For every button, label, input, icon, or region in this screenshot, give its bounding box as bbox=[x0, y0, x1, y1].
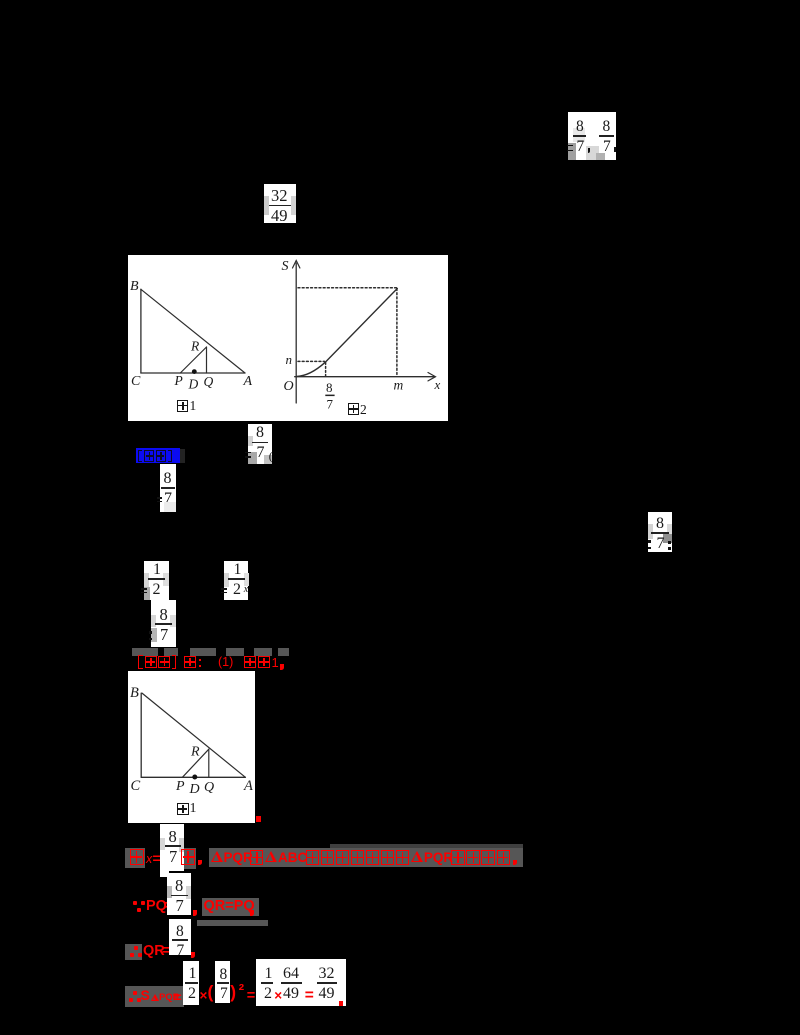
red △ bbox=[211, 851, 223, 862]
caption 图 (fig2) bbox=[348, 403, 360, 415]
red 最 bbox=[481, 850, 494, 865]
white eq box 8/7 mid bbox=[151, 600, 175, 648]
red comma bbox=[280, 664, 284, 670]
red ( bbox=[208, 984, 214, 1002]
gray artifact bbox=[596, 153, 605, 160]
8/7 mid bar bbox=[155, 623, 172, 625]
white eq box 8/7 right bbox=[648, 512, 672, 553]
caption 1 bbox=[190, 399, 197, 413]
svg-text:C: C bbox=[130, 778, 140, 794]
8/7 line3 denominator bbox=[176, 898, 184, 915]
8/7 line4 numerator bbox=[176, 924, 184, 940]
svg-text:R: R bbox=[190, 339, 200, 354]
caption 图 (fig big) bbox=[177, 803, 189, 816]
8/7 first denominator bbox=[577, 139, 585, 155]
gray jpeg block bbox=[132, 648, 158, 656]
8/7 second denominator bbox=[603, 139, 611, 155]
triangle BA hypotenuse bbox=[141, 289, 245, 373]
8/7 line5 numerator bbox=[220, 967, 228, 983]
8/7 line4 bar bbox=[172, 939, 188, 941]
red 恰 bbox=[366, 850, 379, 865]
gray jpeg block bbox=[184, 848, 197, 869]
black equals fragment bbox=[245, 456, 251, 458]
svg-text:8: 8 bbox=[326, 380, 333, 395]
red (1) bbox=[218, 656, 233, 669]
8/7 bar bbox=[325, 395, 334, 397]
black dot fragment bbox=[648, 540, 651, 543]
gray jpeg block bbox=[125, 986, 184, 1007]
gray jpeg block bbox=[164, 648, 178, 656]
white eq box 1/2 line5 bbox=[183, 961, 199, 1005]
svg-text:7: 7 bbox=[327, 397, 334, 412]
8/7 right denominator bbox=[657, 536, 665, 552]
white eq box 1/2 b bbox=[224, 561, 248, 600]
svg-text:A: A bbox=[243, 778, 253, 794]
red 【 bbox=[138, 655, 143, 669]
top dotted line bbox=[298, 287, 398, 289]
white eq box result bbox=[256, 959, 346, 1007]
fraction 8/7 under figure bbox=[0, 0, 1, 1]
1/2 result denominator bbox=[264, 986, 272, 1002]
red comma bbox=[193, 910, 197, 916]
black 】 bbox=[168, 450, 172, 463]
red 与 bbox=[250, 850, 263, 865]
fraction 8/7 second bbox=[0, 0, 1, 1]
32/49 bar bbox=[269, 205, 291, 207]
64/49 result bar bbox=[281, 982, 302, 984]
white eq box 8/7 under fig bbox=[248, 424, 272, 464]
gray artifact bbox=[164, 502, 176, 512]
32/49 result denominator bbox=[319, 986, 335, 1002]
gray jpeg block bbox=[197, 920, 269, 926]
gray artifact bbox=[667, 524, 673, 534]
gray jpeg block bbox=[202, 898, 259, 916]
red QR=PQ bbox=[204, 899, 255, 914]
red sub △ bbox=[151, 994, 159, 1001]
fraction 1/2 first bbox=[0, 0, 1, 1]
black comma bbox=[588, 148, 591, 153]
red period bbox=[256, 816, 261, 822]
8/7 line2 denominator bbox=[169, 849, 177, 866]
red 面 bbox=[451, 850, 464, 865]
black dot fragment bbox=[668, 547, 671, 550]
8/7 under figure bar bbox=[252, 442, 268, 444]
gray artifact bbox=[663, 534, 672, 543]
8/7 line3 numerator bbox=[175, 878, 183, 895]
32/49 denominator bbox=[271, 208, 288, 225]
black x fragment bbox=[244, 585, 248, 595]
red 】 bbox=[172, 655, 177, 669]
svg-text:P: P bbox=[175, 779, 185, 794]
red 分 bbox=[351, 850, 364, 865]
32/49 numerator bbox=[271, 188, 288, 205]
red = in box bbox=[305, 988, 314, 1004]
black equals fragment bbox=[245, 452, 251, 454]
dark halo bbox=[180, 449, 185, 464]
black dot fragment bbox=[149, 638, 152, 641]
black equals fragment bbox=[141, 588, 147, 590]
S curve bbox=[297, 289, 398, 377]
black equals fragment bbox=[157, 497, 162, 499]
black equals fragment top bbox=[567, 145, 573, 147]
black equals fragment bbox=[141, 592, 147, 594]
triangle CA base bbox=[141, 776, 245, 778]
svg-text:m: m bbox=[394, 378, 404, 393]
8/7 dotted line bbox=[325, 363, 327, 377]
fraction 8/7 line4 bbox=[0, 0, 1, 1]
red colon dot bbox=[199, 659, 202, 662]
red 大 bbox=[497, 850, 510, 865]
red therefore ∴ bbox=[133, 991, 137, 995]
gray artifact bbox=[151, 615, 156, 627]
red PQR bbox=[424, 851, 453, 865]
fraction 64/49 result bbox=[0, 0, 1, 1]
inner PR side bbox=[182, 749, 208, 777]
svg-text:n: n bbox=[286, 352, 293, 367]
black equals fragment bbox=[221, 592, 227, 594]
svg-text:A: A bbox=[243, 374, 253, 389]
8/7 line3 bar bbox=[171, 895, 188, 897]
1/2 first denominator bbox=[153, 582, 161, 598]
fraction 1/2 line5 bbox=[0, 0, 1, 1]
white eq box 32/49 bbox=[264, 184, 296, 223]
1/2 result numerator bbox=[265, 966, 273, 982]
gray artifact bbox=[573, 128, 585, 142]
figure box: triangle diagram 图1 and graph 图2 bbox=[128, 255, 448, 421]
1/2 first numerator bbox=[153, 562, 161, 578]
black dot fragment bbox=[149, 631, 152, 634]
gray artifact bbox=[586, 146, 599, 160]
S axis bbox=[295, 263, 297, 403]
figure box 2: large triangle diagram 图1 bbox=[128, 671, 255, 823]
white eq box 8/7 below blue bbox=[160, 464, 176, 512]
triangle CB side bbox=[140, 693, 142, 777]
1/2 second numerator bbox=[234, 562, 242, 578]
gray jpeg block bbox=[278, 648, 289, 656]
red 好 bbox=[381, 850, 394, 865]
red PQ bbox=[146, 899, 167, 914]
white sliver bbox=[160, 871, 168, 877]
fraction 32/49 bbox=[0, 0, 1, 1]
gray jpeg block bbox=[209, 848, 523, 867]
fraction 8/7 line3 bbox=[0, 0, 1, 1]
8/7 line4 denominator bbox=[177, 943, 185, 959]
8/7 second bar bbox=[599, 135, 614, 137]
gray artifact bbox=[264, 196, 269, 215]
1/2 line5 denominator bbox=[188, 986, 196, 1002]
x axis bbox=[295, 376, 434, 378]
caption 1 bbox=[190, 802, 197, 816]
red △ bbox=[265, 851, 277, 862]
black 答 bbox=[156, 450, 166, 462]
red = bbox=[165, 899, 173, 914]
red period bbox=[339, 1001, 344, 1006]
1/2 second bar bbox=[228, 578, 245, 580]
black 【 bbox=[138, 450, 142, 463]
1/2 result bar bbox=[261, 982, 272, 984]
blue highlight bbox=[136, 448, 181, 463]
gray artifact bbox=[179, 838, 184, 852]
32/49 result numerator bbox=[319, 966, 335, 982]
caption 图 (fig1) bbox=[177, 400, 189, 412]
gray artifact bbox=[248, 452, 257, 464]
white eq box 8/7 line4 bbox=[169, 919, 192, 955]
fraction 8/7 mid bbox=[0, 0, 1, 1]
red sub PQR bbox=[159, 993, 180, 1003]
fraction 32/49 result bbox=[0, 0, 1, 1]
8/7 mid denominator bbox=[160, 627, 168, 644]
gray artifact bbox=[568, 143, 576, 160]
8/7 line5 bar bbox=[217, 982, 230, 984]
point D dot bbox=[192, 369, 197, 374]
64/49 result numerator bbox=[283, 966, 299, 982]
8/7 right bar bbox=[651, 532, 669, 534]
red 如 bbox=[244, 656, 257, 669]
triangle CB side bbox=[140, 289, 142, 373]
1/2 second denominator bbox=[233, 582, 241, 598]
fraction 1/2 second bbox=[0, 0, 1, 1]
gray artifact bbox=[167, 886, 172, 898]
8/7 first numerator bbox=[576, 119, 584, 135]
red colon dot bbox=[199, 665, 202, 668]
point D dot bbox=[192, 775, 197, 780]
red therefore ∴ bbox=[134, 946, 138, 950]
svg-text:B: B bbox=[130, 279, 139, 294]
red = bbox=[247, 989, 255, 1004]
svg-text:P: P bbox=[174, 373, 183, 388]
1/2 line5 numerator bbox=[189, 966, 197, 982]
8/7 second numerator bbox=[603, 119, 611, 135]
svg-text:S: S bbox=[282, 259, 289, 274]
red comma bbox=[198, 860, 202, 866]
fraction 8/7 below blue bbox=[0, 0, 1, 1]
fraction 8/7 first bbox=[0, 0, 1, 1]
black equals fragment bbox=[157, 501, 162, 503]
red 时 bbox=[181, 849, 195, 865]
red 解 bbox=[184, 656, 197, 669]
red = bbox=[162, 944, 170, 959]
8/7 below blue denominator bbox=[164, 491, 172, 507]
red ² bbox=[239, 983, 245, 1000]
8/7 below blue bar bbox=[161, 487, 175, 489]
white eq box 8/7 line3 bbox=[167, 873, 191, 915]
x axis arrow bbox=[428, 373, 436, 381]
black equals fragment bottom bbox=[567, 150, 573, 152]
svg-text:x: x bbox=[434, 377, 441, 392]
red 重 bbox=[306, 850, 319, 865]
fraction 8/7 line2 bbox=[0, 0, 1, 1]
svg-text:D: D bbox=[188, 377, 199, 392]
gray jpeg block bbox=[125, 848, 145, 868]
gray artifact bbox=[144, 587, 150, 600]
red 叠 bbox=[321, 850, 334, 865]
red comma bbox=[191, 952, 195, 958]
red × in box bbox=[274, 989, 282, 1003]
svg-text:Q: Q bbox=[204, 780, 214, 795]
gray artifact bbox=[170, 615, 176, 627]
8/7 right numerator bbox=[656, 516, 664, 532]
svg-text:O: O bbox=[284, 379, 294, 394]
triangle BA hypotenuse bbox=[142, 693, 245, 777]
1/2 line5 bar bbox=[185, 982, 198, 984]
red ) bbox=[230, 984, 236, 1002]
n dotted line bbox=[298, 360, 325, 362]
red because ∵ bbox=[133, 901, 137, 905]
fraction 8/7 right bbox=[0, 0, 1, 1]
gray artifact bbox=[244, 573, 249, 586]
gray artifact bbox=[291, 196, 296, 215]
black paren fragment bbox=[269, 450, 273, 462]
gray jpeg strip bbox=[330, 844, 523, 849]
8/7 under figure numerator bbox=[256, 425, 264, 441]
gray jpeg block bbox=[190, 648, 216, 656]
red = bbox=[153, 851, 161, 865]
white eq box 8/7 line2 bbox=[160, 824, 183, 871]
red 解 bbox=[145, 656, 157, 669]
red ABC bbox=[278, 851, 307, 865]
64/49 result denominator bbox=[283, 986, 299, 1002]
inner PR side bbox=[180, 347, 206, 373]
red = bbox=[174, 990, 182, 1004]
red 积 bbox=[466, 850, 479, 865]
8/7 line2 bar bbox=[165, 845, 181, 847]
8/7 first bar bbox=[573, 135, 587, 137]
gray artifact bbox=[224, 573, 229, 587]
gray jpeg block bbox=[125, 944, 142, 960]
white eq box 1/2 a bbox=[144, 561, 169, 600]
gray jpeg block bbox=[226, 648, 244, 656]
red 是 bbox=[396, 850, 409, 865]
svg-text:Q: Q bbox=[204, 374, 214, 389]
black 解 bbox=[144, 450, 154, 462]
svg-text:C: C bbox=[131, 374, 141, 389]
red PQR bbox=[224, 851, 253, 865]
white eq box 8/7,8/7 bbox=[568, 112, 616, 161]
fraction 8/7 line5 bbox=[0, 0, 1, 1]
gray artifact bbox=[144, 573, 149, 587]
red 图 bbox=[258, 656, 271, 669]
svg-text:B: B bbox=[130, 685, 139, 701]
gray artifact bbox=[160, 838, 165, 850]
svg-text:R: R bbox=[190, 745, 200, 760]
triangle CA base bbox=[141, 372, 245, 374]
red 1 bbox=[272, 656, 279, 669]
32/49 result bar bbox=[317, 982, 337, 984]
8/7 mid numerator bbox=[160, 607, 168, 624]
red QR bbox=[143, 944, 165, 959]
gray jpeg block bbox=[254, 648, 272, 656]
red comma bbox=[513, 860, 517, 866]
8/7 line2 numerator bbox=[169, 829, 177, 846]
gray artifact bbox=[648, 524, 653, 539]
black comma fragment bbox=[614, 147, 616, 152]
red 部 bbox=[336, 850, 349, 865]
black equals fragment bbox=[221, 588, 227, 590]
8/7 below blue numerator bbox=[164, 471, 172, 487]
gray artifact bbox=[248, 436, 253, 446]
red △ bbox=[411, 851, 423, 862]
white eq box 8/7 line5 bbox=[215, 961, 230, 1003]
8/7 under figure denominator bbox=[257, 445, 265, 461]
caption 2 bbox=[360, 403, 367, 417]
inner RQ side bbox=[207, 749, 209, 777]
red × bbox=[200, 989, 208, 1003]
inner RQ side bbox=[206, 347, 208, 373]
black dot fragment bbox=[648, 547, 651, 550]
gray artifact bbox=[264, 455, 272, 464]
S axis arrow bbox=[293, 261, 300, 269]
red S bbox=[141, 988, 150, 1002]
black dot fragment bbox=[668, 541, 671, 544]
8/7 line5 denominator bbox=[220, 986, 228, 1002]
fraction 1/2 result bbox=[0, 0, 1, 1]
gray artifact bbox=[151, 628, 157, 642]
1/2 first bar bbox=[148, 578, 165, 580]
right dotted line bbox=[396, 289, 398, 376]
gray artifact bbox=[186, 886, 191, 899]
red 当 bbox=[130, 849, 144, 865]
svg-text:D: D bbox=[188, 782, 199, 797]
red 答 bbox=[158, 656, 170, 669]
red comma bbox=[250, 910, 254, 916]
gray artifact bbox=[163, 573, 169, 586]
red x bbox=[146, 853, 152, 866]
